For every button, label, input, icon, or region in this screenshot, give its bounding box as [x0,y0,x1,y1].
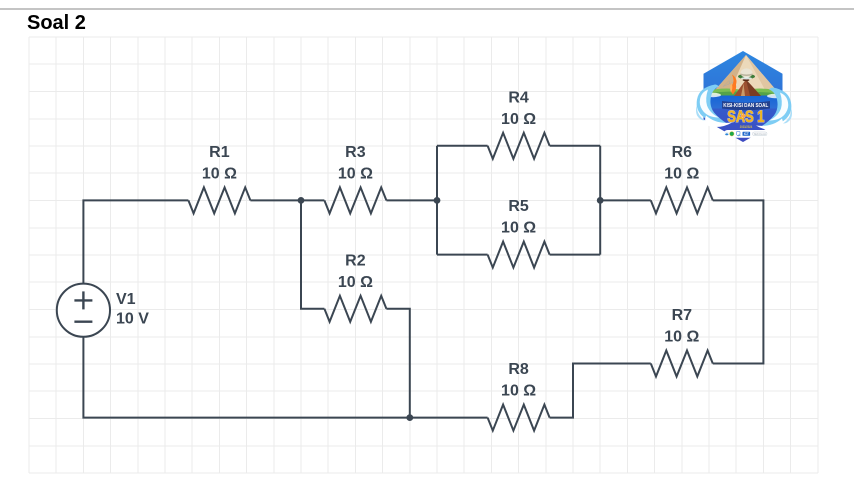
svg-text:R3: R3 [345,144,366,161]
svg-text:V1: V1 [116,291,136,308]
svg-text:10 Ω: 10 Ω [501,111,536,128]
svg-text:R4: R4 [508,89,529,106]
svg-text:10 Ω: 10 Ω [501,220,536,237]
svg-text:10 Ω: 10 Ω [202,165,237,182]
svg-text:10 Ω: 10 Ω [664,329,699,346]
svg-text:10 Ω: 10 Ω [501,383,536,400]
svg-text:R6: R6 [672,144,693,161]
svg-text:10 V: 10 V [116,311,149,328]
svg-text:10 Ω: 10 Ω [338,165,373,182]
svg-text:R5: R5 [508,198,529,215]
svg-text:SEKOLAH: SEKOLAH [754,132,766,136]
svg-text:10 Ω: 10 Ω [338,274,373,291]
svg-text:R7: R7 [672,307,693,324]
svg-text:ICT: ICT [744,132,749,136]
svg-text:R2: R2 [345,252,366,269]
svg-text:SAS 1: SAS 1 [727,108,764,126]
svg-text:10 Ω: 10 Ω [664,165,699,182]
svg-text:2023/2024: 2023/2024 [740,125,753,129]
svg-text:R1: R1 [209,144,230,161]
svg-text:R8: R8 [508,361,529,378]
